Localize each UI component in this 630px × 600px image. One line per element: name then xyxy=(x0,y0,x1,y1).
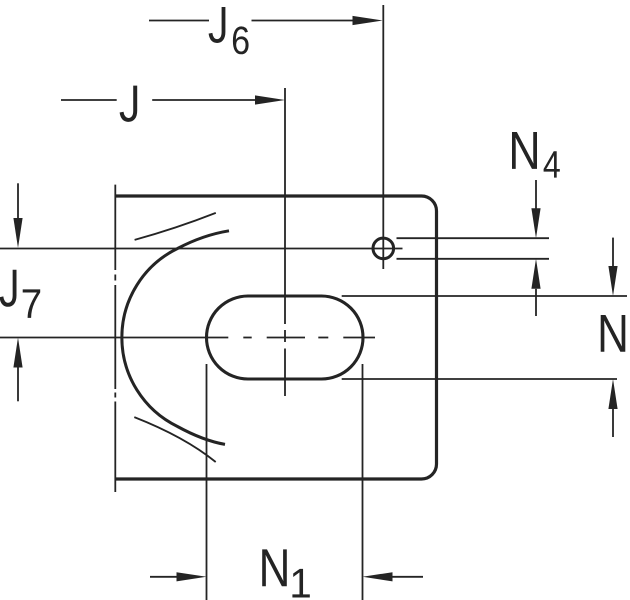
plate outline xyxy=(115,196,436,479)
N4 arrows xyxy=(535,180,537,209)
slot horizontal centerline xyxy=(0,337,375,339)
dimension J xyxy=(61,99,256,101)
N4 tangent extension lines xyxy=(397,238,550,259)
label J7 xyxy=(0,270,16,307)
label N1 xyxy=(262,549,287,586)
break line bottom xyxy=(134,417,215,462)
label J6 xyxy=(209,7,226,43)
hole vertical centerline / J6 extension xyxy=(382,5,384,269)
label J xyxy=(120,86,138,122)
hole horizontal centerline xyxy=(0,248,403,250)
slot vertical centerline / J extension xyxy=(284,88,286,396)
left tangent centerline xyxy=(114,185,116,492)
label N xyxy=(601,315,626,352)
dimension J6 xyxy=(149,20,354,22)
label N4 xyxy=(512,132,537,169)
slot xyxy=(207,296,364,379)
J7 arrows xyxy=(17,183,19,218)
break line top xyxy=(135,213,216,240)
housing arc xyxy=(122,231,229,445)
N arrows xyxy=(612,238,614,267)
hole xyxy=(373,238,394,259)
N extension lines xyxy=(342,296,627,379)
N1 arrows xyxy=(150,576,177,578)
N1 extension lines xyxy=(207,364,363,600)
